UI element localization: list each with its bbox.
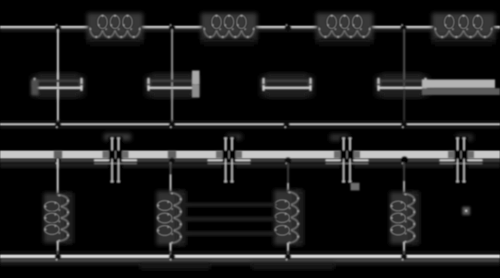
node mid rail junction 3 (285, 157, 291, 164)
wire shunt branch 8 lower (403, 242, 405, 257)
artifact faint smudge below bottom rail left (140, 264, 210, 270)
inductor L3 (316, 13, 373, 45)
inductor L4 (432, 13, 495, 45)
node bottom rail junction 1 (55, 254, 61, 261)
capacitor C3 (261, 74, 314, 98)
wire shunt branch 2 lower (171, 89, 173, 124)
node mid rail junction 1 (55, 158, 61, 164)
wire shunt branch 6 upper (170, 162, 172, 193)
artifact faint label smudge left (104, 134, 131, 141)
inductor L1 (87, 13, 143, 45)
capacitor C5 (94, 137, 137, 185)
node mid rail junction 2 (169, 158, 175, 164)
wire bottom circuit top rail (0, 159, 500, 168)
artifact gray bar at C2 right end (192, 71, 200, 98)
node bottom rail junction 2 (169, 254, 175, 261)
artifact faint label smudge 4 (456, 134, 473, 141)
inductor L6 (157, 191, 186, 245)
node band notch branch 1 (54, 151, 62, 159)
capacitor C6 (208, 137, 251, 185)
capacitor C4 (376, 74, 429, 98)
wire shunt branch 2 upper (171, 29, 173, 80)
artifact ghost line upper (183, 203, 276, 208)
wire top rail segment 2 (140, 26, 204, 32)
node mid rail junction 4 (401, 156, 408, 164)
node middle rail junction 2 (169, 122, 175, 128)
wire shunt branch 7 upper (287, 163, 289, 192)
wire shunt branch 1 upper (57, 29, 59, 80)
artifact gray block at C1 left end (31, 80, 38, 96)
wire shunt branch 4 through cap (403, 82, 405, 87)
node middle rail junction 3 (284, 122, 290, 128)
wire top rail segment 1 (0, 26, 90, 32)
wire shunt branch 7 lower (287, 243, 289, 257)
node top rail junction 4 (400, 24, 406, 31)
inductor L7 (274, 190, 303, 245)
wire shunt branch 5 lower (57, 241, 59, 257)
artifact faint smudge below bottom rail (252, 264, 334, 270)
capacitor C1 (32, 74, 85, 98)
artifact gray square with dot (462, 207, 470, 215)
wire shunt branch 5 upper (57, 158, 59, 195)
wire top rail segment 4 (370, 26, 435, 32)
wire top rail segment 5 (492, 26, 500, 32)
wire shunt branch 6 lower (170, 243, 172, 257)
artifact ghost line middle (183, 217, 276, 222)
wire shunt branch 4 upper (403, 29, 405, 80)
artifact light gray band (0, 151, 500, 159)
capacitor C8 (440, 137, 483, 185)
node top rail junction 2 (169, 24, 175, 31)
node top rail junction 3 (285, 24, 291, 31)
wire top rail segment 3 (254, 26, 319, 32)
artifact faint label smudge right (227, 134, 242, 140)
inductor L8 (390, 192, 419, 244)
wire shunt branch 2 through cap (171, 82, 173, 87)
node band notch branch 2 (168, 151, 176, 159)
wire middle rail (top circuit bottom) (0, 121, 500, 129)
node bottom rail junction 3 (285, 254, 291, 261)
wire shunt branch 1 through cap (57, 82, 59, 87)
node bottom rail junction 4 (401, 254, 407, 261)
inductor L5 (44, 193, 73, 243)
capacitor C2 (146, 74, 199, 98)
wire bottom rail (0, 251, 500, 266)
wire shunt branch 1 lower (57, 89, 59, 124)
wire shunt branch 8 upper (403, 162, 405, 194)
artifact ghost line lower (183, 231, 276, 236)
capacitor C7 (326, 137, 369, 185)
node top rail junction 1 (55, 24, 61, 31)
artifact gray band right of C4 (422, 80, 500, 96)
inductor L2 (201, 13, 257, 45)
artifact faint label smudge 3 (330, 134, 349, 141)
artifact gray square below C7 (351, 183, 360, 191)
node middle rail junction 1 (55, 122, 61, 128)
node middle rail junction 4 (401, 122, 407, 128)
wire shunt branch 4 lower (403, 89, 405, 124)
